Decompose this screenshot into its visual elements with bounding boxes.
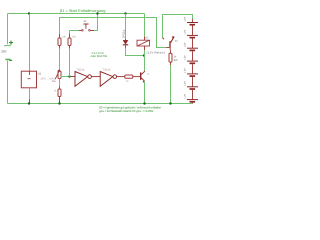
pin stub red box bottom	[29, 99, 31, 103]
svg-text:S2: S2	[38, 73, 42, 76]
wire relay bottom to node	[144, 50, 146, 56]
node dot bottom rail divider	[58, 102, 60, 104]
battery cell G6	[187, 87, 198, 100]
wire left vertical battery upper	[7, 14, 9, 45]
wire R1 to pot	[59, 49, 61, 71]
wire R5 to bottom rail	[170, 65, 172, 103]
wire top rail	[8, 13, 145, 15]
battery stack pin stub top	[192, 19, 194, 22]
svg-text:1,2V: 1,2V	[183, 94, 186, 99]
battery cell G7	[187, 100, 198, 104]
wire inner line R1 top to Q2 base net	[60, 18, 167, 48]
node dot zener riser	[124, 12, 126, 14]
svg-text:1,2V: 1,2V	[183, 81, 186, 86]
node dot top rail box riser	[28, 12, 30, 14]
resistor R1	[58, 34, 61, 49]
svg-text:ZPD5,1: ZPD5,1	[123, 29, 126, 38]
resistor R2	[68, 34, 71, 49]
battery B1 plate short	[5, 59, 10, 61]
svg-text:1,2V: 1,2V	[183, 55, 186, 60]
wire U1B out to R3	[117, 76, 125, 78]
inverter U1B	[100, 72, 116, 87]
svg-text:1,2V: 1,2V	[183, 29, 186, 34]
wire zener riser	[125, 14, 127, 40]
battery cell G1	[187, 23, 198, 36]
node dot relay bottom	[143, 54, 145, 56]
transistor Q1	[141, 71, 145, 83]
wire pot to R4	[59, 79, 61, 87]
inverter U1A	[71, 72, 91, 87]
wire Q1 emitter to bottom rail	[144, 82, 146, 104]
svg-text:20V: 20V	[1, 49, 6, 53]
battery B1 plate long	[4, 44, 11, 47]
transistor Q2	[167, 36, 175, 50]
wire U1A out to U1B in	[91, 76, 100, 78]
wire node to Q1 collector	[144, 56, 146, 71]
svg-text:5W: 5W	[174, 59, 178, 62]
svg-text:74C14: 74C14	[103, 68, 111, 71]
potentiometer P1	[55, 70, 61, 79]
wire left vertical battery lower	[7, 61, 9, 104]
pin stub U leg bottom	[163, 38, 165, 40]
node dot Q1 emitter rail	[143, 102, 145, 104]
battery cell G5	[187, 74, 198, 87]
wire R2 column top	[69, 31, 71, 34]
node dot R5 rail	[169, 102, 171, 104]
node dot bottom rail box	[28, 102, 30, 104]
battery cell G4	[187, 61, 198, 74]
battery minus sign	[9, 60, 12, 61]
battery cell G3	[187, 48, 198, 61]
wire button left	[70, 30, 79, 32]
svg-text:74C14: 74C14	[77, 68, 85, 71]
wire tap horizontal to inverter input	[60, 76, 71, 78]
relay K1 coil	[137, 40, 150, 46]
wire button right riser	[94, 14, 97, 31]
wire bottom rail	[8, 103, 193, 105]
svg-text:oder MAX708: oder MAX708	[91, 55, 108, 58]
pin stub relay bottom	[144, 46, 146, 50]
wire box riser	[29, 14, 31, 72]
svg-text:1,2V: 1,2V	[183, 68, 186, 73]
wire R2 bottom to junction	[69, 49, 71, 77]
box S2 thermal switch	[21, 71, 36, 88]
battery cell G2	[187, 35, 198, 48]
wire zener bottom to relay node	[126, 48, 145, 56]
resistor R5	[169, 51, 172, 66]
wire relay riser	[144, 14, 146, 37]
wire box to bottom rail	[29, 88, 31, 100]
node dot R2 bottom junction	[68, 75, 70, 77]
pin stub relay top	[144, 37, 146, 41]
svg-text:1,2V: 1,2V	[183, 16, 186, 21]
svg-text:ges. Hochlastwiderstand mit ge: ges. Hochlastwiderstand mit ges. >=110W	[99, 109, 153, 113]
resistor R3	[125, 75, 140, 78]
svg-text:β1 = Start Entladevorgang: β1 = Start Entladevorgang	[60, 8, 105, 13]
svg-text:(12V-Relais): (12V-Relais)	[147, 51, 165, 54]
resistor R4	[58, 86, 61, 103]
pushbutton S1	[79, 24, 94, 31]
battery plus sign	[9, 41, 13, 45]
svg-text:1,2V: 1,2V	[183, 42, 186, 47]
zener diode D1	[123, 39, 128, 48]
wire U-structure emitter rail	[163, 15, 193, 38]
node dot button riser	[96, 12, 98, 14]
